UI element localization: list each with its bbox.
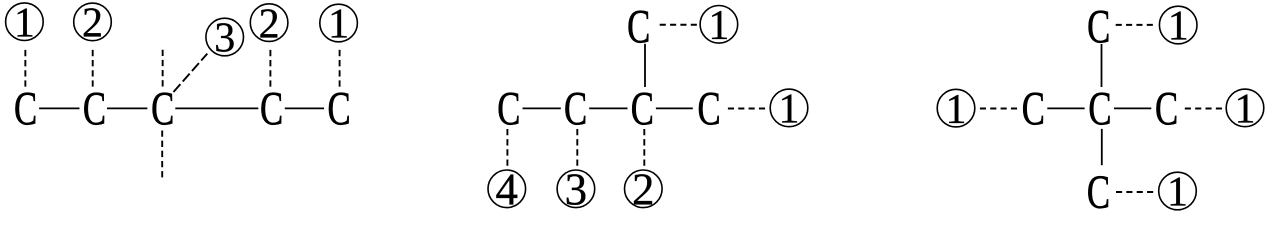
label circled 1 S3 right bbox=[1226, 87, 1264, 133]
svg-text:C: C bbox=[1022, 82, 1045, 135]
bond S2 C3-C5 vertical bbox=[644, 44, 646, 87]
svg-text:1: 1 bbox=[1235, 87, 1256, 133]
atom S2-C5 branch top bbox=[627, 0, 650, 53]
svg-text:C: C bbox=[564, 82, 587, 135]
dashed connector S3 label to Cleft bbox=[980, 108, 1017, 110]
svg-text:C: C bbox=[1088, 82, 1111, 135]
atom S2-C1 bbox=[497, 82, 520, 135]
svg-text:C: C bbox=[327, 82, 350, 135]
label circled 1 S3 left bbox=[937, 87, 975, 133]
label circled 1 S3 bottom right bbox=[1159, 170, 1197, 216]
label circled 1 S2 right of C5 bbox=[700, 3, 738, 49]
dashed connector S2 below C1 bbox=[506, 129, 508, 166]
bond S3 Ccenter-Cbottom vertical bbox=[1101, 129, 1103, 165]
label circled 2 S2 below C3 bbox=[625, 165, 663, 215]
dashed connector S1 C5 to label 1 bbox=[339, 50, 341, 87]
label circled 1 S3 top right bbox=[1159, 4, 1197, 50]
svg-text:C: C bbox=[14, 82, 37, 135]
dashed connector S3 Ctop to label bbox=[1116, 24, 1153, 26]
atom S3-C bottom bbox=[1087, 166, 1110, 219]
atom S3-C top bbox=[1087, 0, 1110, 53]
dashed connector S2 below C3 bbox=[643, 129, 645, 166]
bond S2 C3-C4 bbox=[656, 107, 693, 109]
svg-text:3: 3 bbox=[565, 165, 588, 215]
svg-text:4: 4 bbox=[496, 165, 519, 215]
svg-text:C: C bbox=[1155, 82, 1178, 135]
atom S2-C2 bbox=[564, 82, 587, 135]
bond S3 Ccenter-Ctop vertical bbox=[1101, 44, 1103, 87]
bond S3 Ccenter-Cright bbox=[1114, 107, 1151, 109]
label circled 2 S1 above C2 bbox=[74, 1, 112, 47]
dashed connector S1 below C3 bbox=[161, 131, 163, 178]
svg-text:1: 1 bbox=[708, 3, 729, 49]
dashed connector S1 C1 to label 1 bbox=[24, 50, 26, 87]
svg-text:C: C bbox=[627, 0, 650, 53]
label circled 3 S1 upper right of C3 bbox=[206, 16, 244, 62]
svg-text:1: 1 bbox=[328, 2, 349, 48]
svg-text:2: 2 bbox=[259, 1, 280, 47]
svg-text:C: C bbox=[1087, 0, 1110, 53]
atom S3-C left bbox=[1022, 82, 1045, 135]
svg-text:2: 2 bbox=[632, 165, 655, 215]
svg-text:3: 3 bbox=[214, 16, 235, 62]
dashed connector S3 Cbottom to label bbox=[1116, 191, 1153, 193]
atom S1-C5 bbox=[327, 82, 350, 135]
svg-text:C: C bbox=[151, 82, 174, 135]
dashed connector S1 C2 to label 2 bbox=[92, 50, 94, 87]
atom S2-C4 bbox=[697, 82, 720, 135]
dashed connector S1 C4 to label 2 bbox=[269, 50, 271, 87]
svg-text:1: 1 bbox=[779, 87, 800, 133]
label circled 4 S2 below C1 bbox=[488, 165, 526, 215]
dashed connector S2 C4 to label 1 bbox=[728, 108, 765, 110]
svg-text:C: C bbox=[1087, 166, 1110, 217]
label circled 3 S2 below C2 bbox=[557, 165, 595, 215]
atom S3-C center bbox=[1088, 82, 1111, 135]
svg-text:C: C bbox=[697, 82, 720, 135]
svg-text:C: C bbox=[497, 82, 520, 135]
svg-text:1: 1 bbox=[946, 87, 967, 133]
bond S1 C4-C5 bbox=[285, 107, 324, 109]
svg-text:1: 1 bbox=[1168, 4, 1189, 50]
bond S1 C3-C4 bbox=[175, 107, 258, 109]
label circled 1 S2 right of C4 bbox=[770, 87, 808, 133]
svg-text:1: 1 bbox=[14, 0, 35, 46]
atom S1-C1 bbox=[14, 82, 37, 135]
svg-text:C: C bbox=[83, 82, 106, 135]
bond S1 C1-C2 bbox=[39, 107, 79, 109]
dashed connector S2 C5 to label 1 bbox=[660, 24, 697, 26]
atom S3-C right bbox=[1155, 82, 1178, 135]
bond S2 C2-C3 bbox=[589, 107, 627, 109]
bond S1 C2-C3 bbox=[107, 107, 147, 109]
dashed connector S1 above C3 bbox=[162, 50, 164, 87]
label circled 1 S1 above C5 bbox=[320, 2, 358, 48]
svg-text:1: 1 bbox=[1167, 170, 1188, 216]
dashed connector S2 below C2 bbox=[576, 129, 578, 166]
atom S2-C3 bbox=[631, 82, 654, 135]
atom S1-C2 bbox=[83, 82, 106, 135]
atom S1-C4 bbox=[260, 82, 283, 135]
dashed connector S1 C3 to label 3 diagonal bbox=[170, 54, 208, 97]
svg-text:C: C bbox=[260, 82, 283, 135]
label circled 2 S1 above C4 bbox=[250, 1, 288, 47]
label circled 1 S1 above C1 bbox=[6, 0, 44, 46]
svg-text:C: C bbox=[631, 82, 654, 135]
svg-text:2: 2 bbox=[82, 1, 103, 47]
atom S1-C3 bbox=[151, 82, 174, 135]
dashed connector S3 Cright to label bbox=[1185, 108, 1222, 110]
bond S2 C1-C2 bbox=[523, 107, 561, 109]
bond S3 Cleft-Ccenter bbox=[1047, 107, 1084, 109]
